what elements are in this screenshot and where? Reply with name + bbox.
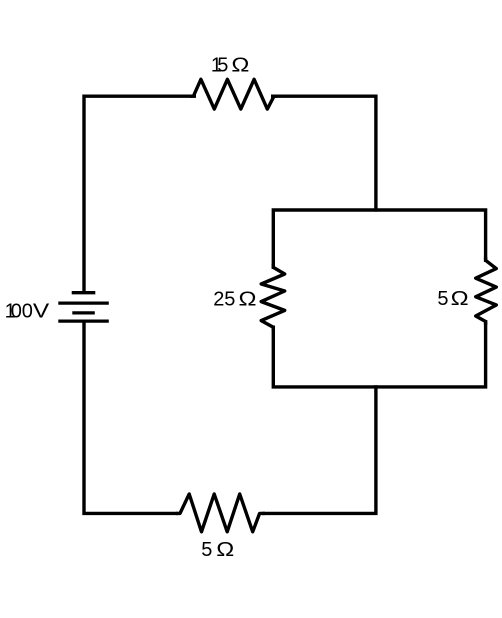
svg-text:5: 5 [201, 539, 212, 561]
resistor R3 5ohm zigzag [476, 257, 497, 325]
resistor R1 15ohm zigzag [190, 79, 277, 109]
svg-text:Ω: Ω [451, 288, 469, 310]
battery B1 plate short lower [72, 311, 95, 314]
svg-text:25: 25 [213, 289, 235, 311]
svg-text:Ω: Ω [239, 289, 257, 311]
svg-text:V: V [33, 301, 50, 323]
battery B1 plate long upper [58, 301, 109, 304]
svg-text:Ω: Ω [231, 54, 249, 76]
svg-text:5: 5 [217, 54, 228, 76]
wire parallel box rectangle sides [273, 210, 485, 387]
svg-text:Ω: Ω [216, 539, 234, 561]
resistor R4 5ohm zigzag [176, 494, 265, 532]
resistor R2 25ohm zigzag [261, 264, 285, 331]
svg-text:00: 00 [11, 301, 33, 323]
battery B1 plate long bottom [58, 319, 109, 322]
wire left rail top and top rail [84, 96, 376, 293]
wire feed below box and bottom rail [84, 321, 376, 513]
svg-text:5: 5 [437, 288, 448, 310]
battery B1 plate short top [72, 291, 96, 294]
